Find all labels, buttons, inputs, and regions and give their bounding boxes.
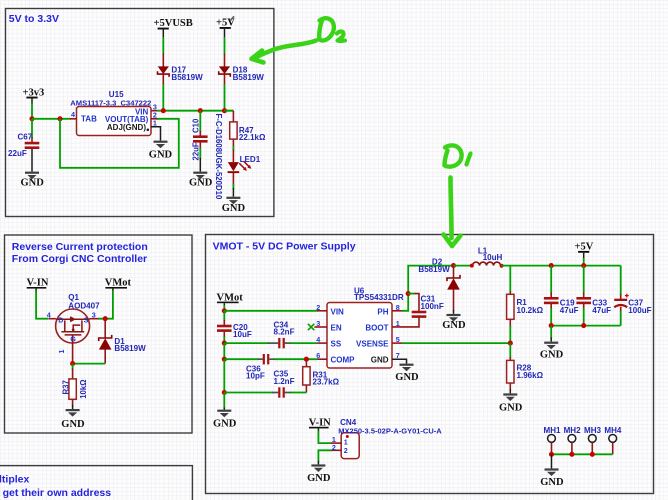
frame: 5V to 3.3V block border (6, 9, 274, 217)
svg-text:GND: GND (371, 356, 389, 365)
svg-text:B5819W: B5819W (171, 73, 203, 82)
diode D18 B5819W (219, 53, 265, 84)
wire lower rail (551, 325, 621, 327)
svg-text:MH4: MH4 (604, 426, 622, 435)
node TAB/feedback junction (57, 116, 62, 121)
wire C35 to R31 bottom (291, 392, 307, 394)
net label V-IN (connector) (309, 417, 331, 431)
frame: bottom multiplex block border (partial) (0, 466, 192, 500)
node VIN/D18 (222, 108, 227, 113)
diode D17 B5819W (158, 53, 204, 84)
wire C34 to SS pin (291, 342, 318, 344)
resistor R37 10k (61, 369, 88, 407)
svg-text:4: 4 (47, 310, 51, 319)
svg-text:100uF: 100uF (628, 306, 651, 315)
svg-text:2: 2 (332, 443, 336, 452)
ground below C10 (189, 172, 213, 189)
svg-text:TAB: TAB (81, 115, 97, 124)
svg-text:G: G (70, 335, 76, 344)
wire left rail C20 to COMP row (223, 343, 225, 359)
node bus/MH1 (549, 452, 554, 457)
svg-text:V-IN: V-IN (27, 278, 49, 289)
svg-text:B5819W: B5819W (418, 265, 450, 274)
annotation D2 handwriting (319, 18, 345, 41)
svg-text:GND: GND (540, 349, 564, 360)
wire D1 anode to Q1 gate node (73, 363, 106, 365)
node Q1 source / D1 junction (103, 316, 108, 321)
wire rail D2 to L1 (454, 265, 473, 267)
wire C36 to COMP node (275, 358, 318, 360)
stray pen tick (231, 16, 235, 20)
svg-text:S: S (84, 315, 89, 324)
svg-text:R37: R37 (61, 380, 70, 394)
wire C35 row left (224, 392, 273, 394)
node rail/C19 (549, 263, 554, 268)
capacitor C67 22uF (8, 119, 39, 172)
pin 4 SS stub (317, 342, 327, 344)
transistor Q1 AOD407 (47, 293, 100, 363)
node left rail / C35 row (222, 390, 227, 395)
node VIN/C10 (198, 108, 203, 113)
capacitor C10 22uF (192, 111, 208, 172)
connector CN4 MX250 (331, 418, 442, 459)
wire mounting hole bus (552, 453, 613, 455)
svg-text:GND: GND (307, 473, 331, 484)
wire left rail COMP to C35 row (223, 359, 225, 392)
svg-text:VIN: VIN (331, 307, 345, 316)
wire D18 to VIN node (224, 84, 226, 110)
svg-text:MX250-3.5-02P-A-GY01-CU-A: MX250-3.5-02P-A-GY01-CU-A (338, 426, 442, 435)
node left rail / SS row (222, 341, 227, 346)
node PH/C31 tap (406, 291, 411, 296)
capacitor C31 100nF (408, 294, 444, 318)
svg-text:AMS1117-3.3 C347222: AMS1117-3.3 C347222 (70, 98, 151, 107)
pin 5 VSENSE stub (392, 342, 403, 344)
frame: VMOT 5V DC Power Supply block border (206, 235, 654, 494)
svg-text:10.2kΩ: 10.2kΩ (517, 306, 544, 315)
svg-text:get their own address: get their own address (3, 487, 112, 499)
mounting hole MH1 (544, 426, 562, 455)
wire main +5V rail (501, 265, 621, 267)
svg-text:GND: GND (540, 477, 564, 488)
svg-text:VMOT - 5V DC Power Supply: VMOT - 5V DC Power Supply (213, 241, 356, 253)
supply +5V right (575, 241, 594, 265)
annotation D1 arrow (444, 178, 461, 247)
svg-text:V-IN: V-IN (309, 417, 331, 428)
wire VSENSE row (402, 342, 510, 344)
wire +5VUSB to D17 (162, 37, 164, 53)
svg-text:22uF: 22uF (192, 142, 201, 160)
net label VMot (105, 278, 132, 292)
annotation D1 handwriting (445, 145, 471, 166)
wire left rail to ground (223, 393, 225, 410)
diode D1 B5819W (99, 319, 146, 364)
svg-text:From Corgi CNC Controller: From Corgi CNC Controller (12, 253, 147, 265)
ground below C19 (540, 342, 564, 361)
svg-text:BOOT: BOOT (365, 323, 388, 332)
node main rail / D2 (451, 263, 456, 268)
node COMP/R31 junction (304, 357, 309, 362)
pin 1 BOOT stub to C31 (392, 317, 419, 327)
inductor L1 10uH (470, 247, 504, 268)
wire TAB row (32, 118, 71, 120)
ground below MH bus (540, 468, 564, 488)
node bus/MH2 (569, 452, 574, 457)
svg-text:10kΩ: 10kΩ (79, 380, 88, 399)
svg-text:GND: GND (61, 419, 85, 430)
svg-text:47uF: 47uF (592, 306, 611, 315)
pin 3 VIN stub (151, 110, 158, 112)
svg-text:GND: GND (222, 203, 246, 214)
node rail/+5V/C33 (581, 263, 586, 268)
capacitor C20 10uF (217, 311, 252, 343)
svg-text:F-C-D1608UGK-520D10: F-C-D1608UGK-520D10 (214, 114, 223, 200)
ground below left rail (213, 410, 237, 430)
svg-text:D: D (58, 315, 63, 324)
wire VMot to VIN row (223, 305, 225, 311)
ground below R37 (61, 409, 85, 430)
net label V-IN (27, 278, 49, 292)
pin 3 EN stub with no-connect cross (308, 324, 327, 330)
svg-text:4: 4 (71, 110, 75, 119)
resistor R47 22.1k (230, 111, 266, 147)
wire COMP row left (224, 358, 258, 360)
svg-text:ADJ(GND): ADJ(GND) (107, 123, 146, 132)
node VSENSE/R1/R28 (508, 341, 513, 346)
ground below CN4 (307, 464, 331, 484)
wire PH to switch node (402, 266, 454, 311)
capacitor C37 100uF polarized (614, 266, 651, 326)
svg-text:C67: C67 (18, 132, 33, 141)
svg-text:10uH: 10uH (483, 253, 503, 262)
svg-text:VMot: VMot (105, 278, 132, 289)
svg-text:SS: SS (331, 340, 342, 349)
svg-text:MH1: MH1 (544, 426, 562, 435)
capacitor C36 10pF (246, 354, 276, 381)
svg-text:3: 3 (92, 310, 96, 319)
svg-text:GND: GND (213, 419, 237, 430)
svg-text:Reverse Current protection: Reverse Current protection (12, 241, 148, 253)
svg-text:GND: GND (21, 178, 45, 189)
wire VIN node row (157, 110, 233, 112)
svg-text:22uF: 22uF (8, 149, 27, 158)
svg-text:+5V: +5V (575, 241, 594, 252)
svg-text:47uF: 47uF (560, 306, 579, 315)
wire LED1 to ground (232, 184, 234, 197)
svg-text:COMP: COMP (331, 356, 356, 365)
svg-text:EN: EN (331, 323, 342, 332)
pin 2 VOUT stub (151, 118, 158, 120)
svg-text:Q1: Q1 (68, 293, 79, 302)
svg-text:23.7kΩ: 23.7kΩ (313, 378, 340, 387)
resistor R28 1.96k (507, 343, 544, 393)
mounting hole MH4 (604, 426, 622, 455)
svg-text:GND: GND (395, 372, 419, 383)
wire feedback loop VOUT (60, 119, 179, 168)
node +3v3/C67 junction (29, 116, 34, 121)
svg-text:5V to 3.3V: 5V to 3.3V (9, 13, 59, 25)
wire gate node to R37 (72, 364, 74, 370)
svg-text:PH: PH (377, 307, 388, 316)
svg-text:MH3: MH3 (584, 426, 602, 435)
supply +3v3 (23, 88, 45, 105)
svg-text:8.2nF: 8.2nF (274, 328, 295, 337)
node VIN/D17 (161, 108, 166, 113)
svg-text:TPS54331DR: TPS54331DR (354, 293, 404, 302)
resistor R31 23.7k (303, 359, 340, 392)
pin 7 GND stub to ground (392, 359, 419, 383)
ground below C67 (21, 172, 45, 189)
svg-text:+5VUSB: +5VUSB (154, 18, 193, 29)
pin 8 PH stub (392, 310, 403, 312)
ground below LED1 (222, 197, 246, 214)
wire VIN row to U6 (224, 310, 317, 312)
svg-text:1.96kΩ: 1.96kΩ (517, 371, 544, 380)
op-amp U15 AMS1117-3.3 regulator body (70, 90, 157, 135)
svg-text:GND: GND (442, 320, 466, 331)
wire R47 to LED1 (232, 146, 234, 151)
mounting hole MH3 (584, 426, 602, 455)
frame: Reverse Current protection block border (5, 235, 193, 433)
wire D18 node to R47 (225, 110, 234, 112)
svg-text:ltiplex: ltiplex (0, 474, 30, 486)
ground below R28 (499, 393, 523, 413)
wire VMot to Q1 source row (98, 291, 113, 319)
annotation D2 arrow (252, 41, 317, 63)
wire SS row left (224, 342, 269, 344)
net label VMot (217, 292, 244, 306)
wire D17 to VIN node (162, 84, 164, 110)
svg-text:B5819W: B5819W (114, 344, 146, 353)
node lower rail/C19/gnd (549, 323, 554, 328)
wire +3v3 down to TAB row (31, 103, 33, 119)
pin 4 TAB stub (70, 118, 77, 120)
pin 1 ADJ stub to ground (149, 127, 173, 161)
node VMot/VIN junction (222, 308, 227, 313)
node bus/MH3 (590, 452, 595, 457)
svg-text:VSENSE: VSENSE (356, 340, 389, 349)
svg-text:C10: C10 (192, 118, 201, 133)
wire +5V to D18 (224, 37, 226, 53)
svg-text:2: 2 (344, 446, 348, 455)
svg-text:22.1kΩ: 22.1kΩ (239, 133, 266, 142)
wire bus to ground (551, 454, 553, 468)
op-amp U6 TPS54331DR body (316, 286, 404, 368)
capacitor C35 1.2nF (272, 370, 295, 398)
wire R37 to ground (72, 405, 74, 409)
capacitor C19 47uF (544, 266, 579, 326)
svg-text:GND: GND (499, 402, 523, 413)
LED LED1 (228, 150, 261, 185)
resistor R1 10.2k (507, 266, 544, 344)
wire CN4 pin2 to ground (318, 450, 331, 462)
pin 2 VIN stub (317, 310, 327, 312)
node lower rail/C33 (581, 323, 586, 328)
wire C19 node to ground (550, 326, 552, 342)
node left rail / COMP row (222, 357, 227, 362)
mounting hole MH2 (564, 426, 582, 455)
supply +5VUSB (154, 18, 193, 37)
diode D2 B5819W (418, 257, 460, 314)
wire V-IN to Q1 drain (36, 291, 48, 319)
capacitor C33 47uF (576, 266, 611, 326)
wire V-IN to CN4 pin1 (318, 431, 331, 444)
node gate/R37 junction (70, 361, 75, 366)
svg-text:100nF: 100nF (421, 302, 444, 311)
svg-text:1: 1 (57, 350, 66, 354)
svg-text:10uF: 10uF (233, 330, 252, 339)
ground below D2 (442, 314, 466, 331)
svg-text:LED1: LED1 (240, 155, 261, 164)
svg-text:1.2nF: 1.2nF (274, 377, 295, 386)
pin 6 COMP stub (317, 358, 327, 360)
svg-text:B5819W: B5819W (233, 73, 265, 82)
svg-text:GND: GND (149, 150, 173, 161)
capacitor C34 8.2nF (268, 321, 295, 349)
svg-text:10pF: 10pF (246, 372, 265, 381)
svg-text:MH2: MH2 (564, 426, 582, 435)
supply +5V (216, 17, 235, 37)
svg-text:GND: GND (189, 178, 213, 189)
